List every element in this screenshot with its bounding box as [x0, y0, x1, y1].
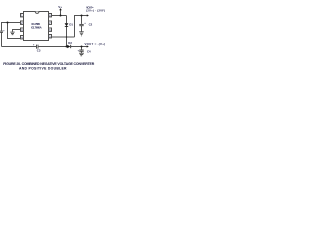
svg-text:C4: C4: [87, 49, 91, 53]
junction dot node A: [7, 22, 9, 24]
diode D2: [67, 45, 71, 49]
wire bottom rail mid: [38, 46, 67, 48]
wire rail B up and right: [75, 16, 88, 38]
wire pin2 to left: [2, 23, 21, 31]
junction dot pin5 cross: [66, 36, 68, 38]
pin 8 box: [49, 14, 52, 17]
capacitor C1 plates: [0, 31, 3, 32]
wire pin5 to right: [52, 36, 75, 38]
capacitor C4 plates: [79, 50, 83, 51]
wire C2 branch upper: [81, 16, 83, 24]
pin 5 box: [49, 35, 52, 38]
wire V+ arrow stem: [60, 10, 62, 16]
wire D1 chain upper: [66, 16, 68, 24]
svg-text:+: +: [84, 22, 86, 25]
wire C4 branch lower: [81, 52, 83, 53]
wire C2 branch lower: [81, 26, 83, 32]
pin 7 box: [49, 21, 52, 24]
ground pin3: [10, 32, 14, 35]
diode D1: [65, 23, 69, 27]
capacitor C3 plates: [37, 45, 39, 49]
wire C1 lower stem: [1, 33, 3, 47]
svg-text:+: +: [33, 43, 35, 46]
pin 2 box: [21, 21, 24, 24]
wire node A down to pin4: [8, 23, 21, 39]
junction dot bottom C4 node: [81, 46, 83, 48]
ground C2 branch: [79, 32, 84, 36]
pin 4 box: [21, 36, 24, 39]
svg-text:FIGURE 20. COMBINED NEGATIVE V: FIGURE 20. COMBINED NEGATIVE VOLTAGE CON…: [3, 62, 94, 66]
capacitor C2 plates: [79, 24, 83, 25]
svg-text:D2: D2: [68, 41, 72, 45]
wire bottom rail left: [2, 46, 37, 48]
wire pin3 to ground: [13, 30, 21, 32]
wire pin8 V+ rail: [52, 15, 67, 17]
svg-text:D1: D1: [69, 22, 73, 26]
wire bottom rail right: [71, 46, 87, 48]
output arrow VOUT+: [87, 14, 89, 16]
svg-text:VOUT = -(V+): VOUT = -(V+): [85, 42, 106, 46]
svg-text:AND POSITIVE DOUBLER: AND POSITIVE DOUBLER: [19, 66, 67, 70]
junction dot bottom node X: [66, 46, 68, 48]
svg-text:ICL7660A: ICL7660A: [31, 25, 42, 29]
pin 3 box: [21, 28, 24, 31]
svg-text:V+: V+: [58, 5, 62, 9]
svg-text:(2V+) - (2VF): (2V+) - (2VF): [86, 9, 105, 13]
ground C4 branch: [79, 53, 84, 56]
wire D1 chain lower: [66, 26, 68, 46]
svg-text:+: +: [78, 49, 80, 52]
wire C4 branch upper: [81, 47, 83, 50]
junction dot V+ node: [60, 15, 62, 17]
svg-text:+: +: [3, 30, 5, 33]
output arrow VOUT-: [87, 45, 89, 47]
pin 6 box: [49, 28, 52, 31]
junction dot rail B: [81, 15, 83, 17]
pin 1 box: [21, 14, 24, 17]
notch: [35, 12, 39, 14]
V+ arrowhead: [59, 8, 62, 10]
svg-text:C2: C2: [89, 22, 93, 26]
op-amp U1 ICL7660 IC body: [24, 12, 49, 41]
svg-text:C3: C3: [37, 49, 41, 53]
